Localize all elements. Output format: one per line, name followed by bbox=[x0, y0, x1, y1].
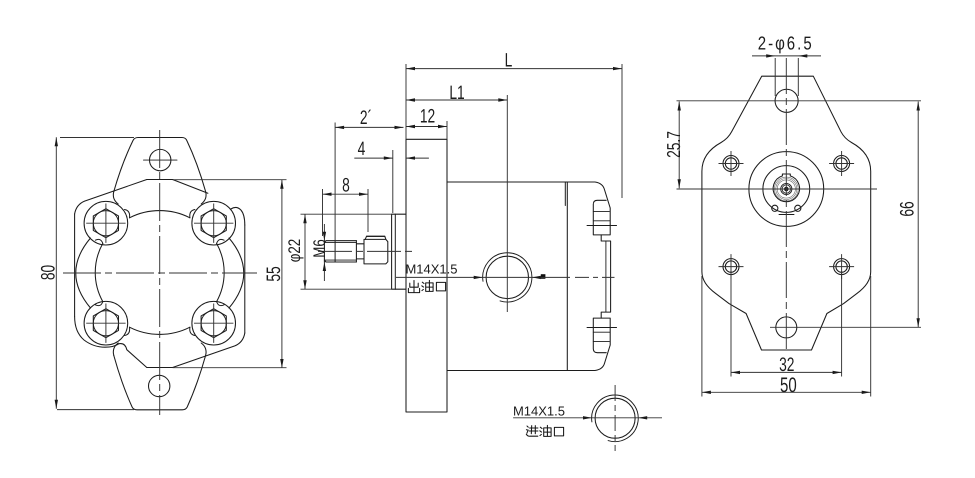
top ear right merge curve bbox=[201, 192, 206, 205]
bottom ear tab bbox=[114, 356, 206, 410]
flange right edge bbox=[244, 225, 246, 333]
svg-text:φ22: φ22 bbox=[284, 239, 303, 263]
svg-text:M14X1.5: M14X1.5 bbox=[405, 262, 457, 277]
dim phi22 line bbox=[304, 214, 306, 289]
body cap joint stub bbox=[564, 183, 566, 206]
hex bolt top-right bbox=[201, 209, 226, 238]
thread runout line bbox=[334, 241, 336, 262]
oval left-top connector bbox=[95, 239, 103, 243]
bolt hole lower-left bbox=[723, 259, 739, 275]
inlet vertical centerline bbox=[614, 385, 616, 451]
dim 80 ext top bbox=[60, 137, 134, 139]
dim 8 ext right bbox=[367, 189, 369, 232]
left view horizontal centerline bbox=[63, 272, 257, 274]
svg-text:66: 66 bbox=[897, 201, 919, 216]
dim 8 line bbox=[323, 193, 369, 195]
svg-text:M6: M6 bbox=[310, 239, 329, 258]
dim L line bbox=[406, 68, 622, 70]
dim 80 ext bottom bbox=[57, 409, 134, 411]
outlet leader and port centerline bbox=[396, 276, 570, 278]
bearing flange circle bbox=[763, 166, 810, 213]
boss crosshair TR bbox=[194, 204, 233, 243]
cap port tab top bbox=[593, 200, 606, 235]
rear view outline bbox=[702, 76, 871, 350]
cap mid strip inner line bbox=[605, 241, 607, 312]
dim 4 ext (pilot face) bbox=[392, 150, 394, 213]
outlet port bore circle bbox=[486, 256, 528, 298]
dim 55 ext bottom bbox=[173, 367, 287, 369]
boss circle top-left bbox=[84, 201, 128, 245]
inlet port bore circle bbox=[595, 398, 635, 438]
hex bolt bottom-right bbox=[201, 309, 226, 338]
dim 2prime ext left bbox=[334, 123, 336, 241]
svg-text:55: 55 bbox=[263, 266, 285, 281]
oval top-left connector bbox=[125, 210, 130, 218]
dim 2prime line bbox=[335, 126, 403, 128]
top ear hole bbox=[150, 149, 171, 170]
outlet port thread arc bbox=[483, 253, 532, 302]
dim 25.7 line bbox=[678, 102, 680, 189]
bolt hole upper-left bbox=[723, 156, 739, 172]
dim 12 ext right bbox=[446, 121, 448, 139]
dim L ext right bbox=[621, 64, 623, 198]
shaft inner circle bbox=[781, 183, 792, 194]
oval body outline top arc bbox=[130, 211, 190, 218]
flange bottom-right slope bbox=[173, 333, 245, 368]
cap tab top ridges bbox=[593, 211, 610, 220]
svg-text:M14X1.5: M14X1.5 bbox=[513, 404, 565, 419]
dim 2-phi6.5 ext lines bbox=[775, 58, 798, 96]
right view vertical centerline bbox=[785, 58, 787, 352]
top tab hole bbox=[775, 89, 798, 112]
svg-text:50: 50 bbox=[780, 374, 797, 398]
shaft thread rings bbox=[774, 177, 798, 201]
pump body top edge bbox=[447, 181, 567, 183]
boss crosshair BL bbox=[86, 304, 125, 343]
left view vertical centerline bbox=[159, 130, 161, 415]
body centerline through cap bbox=[575, 276, 615, 278]
bottom ear hole bbox=[149, 375, 170, 396]
dim phi22 ext bottom bbox=[301, 288, 392, 290]
top ear tab bbox=[114, 138, 206, 192]
flange bottom edge bbox=[147, 367, 173, 369]
dim 50 line bbox=[702, 391, 871, 393]
inlet leader line bbox=[513, 417, 662, 419]
oval body outline bottom arc bbox=[130, 327, 190, 334]
bolt hole crosshairs bbox=[719, 151, 855, 279]
hex bolt top-left bbox=[93, 209, 118, 238]
section dot on centerline bbox=[541, 274, 546, 279]
cap tab bottom tick bbox=[587, 327, 617, 329]
label chu-you-kou (oil outlet) bbox=[408, 281, 419, 293]
dim L ext left bbox=[405, 64, 407, 139]
boss crosshair BR bbox=[194, 304, 233, 343]
boss circle bottom-left bbox=[84, 301, 128, 345]
shaft circle with keyway bbox=[773, 174, 799, 202]
dim 32 line bbox=[731, 371, 842, 373]
dim 32 ext lines bbox=[731, 271, 842, 377]
boss circle bottom-right bbox=[192, 301, 236, 345]
right view horizontal centerline bbox=[677, 188, 878, 190]
pilot boss phi22 bbox=[392, 214, 406, 289]
flange top-left slope bbox=[75, 180, 147, 215]
top ear left merge curve bbox=[113, 192, 118, 205]
svg-text:8: 8 bbox=[342, 175, 350, 197]
dim 50 ext lines bbox=[702, 276, 871, 397]
flange top edge bbox=[147, 179, 173, 181]
flange left edge bbox=[74, 214, 76, 316]
boss crosshair TL bbox=[86, 204, 125, 243]
bolt hole lower-right bbox=[834, 259, 850, 275]
body cap face line bbox=[566, 182, 568, 371]
dim 4 line bbox=[354, 157, 429, 159]
oval bottom-right connector bbox=[190, 327, 195, 335]
bearing pin hole left bbox=[772, 205, 778, 211]
flange bottom-left boss wrap bbox=[75, 316, 147, 367]
bearing pin hole right bbox=[795, 205, 801, 211]
bolt hole upper-right bbox=[834, 156, 850, 172]
cap tab bottom ridges bbox=[593, 332, 610, 341]
oval left-bottom connector bbox=[95, 302, 103, 306]
shaft collar bbox=[364, 239, 388, 264]
bolt washer circle top-right bbox=[201, 211, 226, 236]
hex bolt bottom-left bbox=[93, 309, 118, 338]
svg-text:80: 80 bbox=[38, 265, 60, 280]
oval body outline right arc bbox=[217, 243, 225, 301]
key top edge bbox=[367, 235, 385, 237]
dim 12 line bbox=[406, 126, 447, 128]
dim L1 line bbox=[406, 99, 507, 101]
label jin-you-kou (oil inlet) bbox=[526, 426, 538, 437]
shaft centerline bbox=[318, 250, 416, 252]
oval body outline left arc bbox=[95, 243, 103, 301]
flange top-right S-curve to boss bbox=[231, 207, 245, 225]
dim M6 arrow lines bbox=[323, 224, 325, 281]
cap tab top tick bbox=[587, 225, 617, 227]
bottom ear right merge curve bbox=[201, 343, 206, 356]
boss circle top-right bbox=[192, 201, 236, 245]
flange top-right slope bbox=[173, 180, 208, 194]
cap port tab bottom bbox=[593, 318, 606, 353]
bottom hole horizontal line bbox=[770, 326, 921, 328]
dim 2-phi6.5 line bbox=[752, 55, 821, 57]
bottom ear left merge curve bbox=[113, 343, 118, 356]
shaft neck bbox=[356, 241, 364, 262]
svg-text:L: L bbox=[505, 50, 513, 72]
port vertical centerline bbox=[506, 95, 508, 312]
oval right-top connector bbox=[217, 239, 225, 243]
arrowheads bbox=[55, 137, 58, 146]
bottom tab hole bbox=[776, 317, 797, 338]
mounting flange plate bbox=[406, 139, 447, 412]
right waist arc between right bosses bbox=[229, 238, 244, 308]
key on shaft bbox=[365, 236, 386, 239]
svg-text:25.7: 25.7 bbox=[664, 131, 685, 158]
end cap outline bbox=[567, 182, 610, 371]
top hole horizontal line and 66 ext top bbox=[677, 100, 922, 102]
bolt washer circle bottom-right bbox=[201, 311, 226, 336]
svg-text:2-φ6.5: 2-φ6.5 bbox=[758, 33, 814, 54]
shaft thread M6 section bbox=[324, 241, 356, 262]
thread chamfer left bbox=[324, 241, 326, 262]
left waist arc between left bosses bbox=[76, 238, 91, 308]
thread minor diameter lines bbox=[325, 243, 356, 261]
svg-text:L1: L1 bbox=[449, 82, 464, 104]
pump body bottom edge bbox=[447, 370, 567, 372]
dim 55 ext top bbox=[173, 179, 287, 181]
center boss outer circle bbox=[749, 152, 824, 227]
inlet port thread arc bbox=[592, 395, 639, 442]
shaft center dot bbox=[784, 187, 789, 192]
dim 55 line bbox=[281, 180, 283, 368]
bolt washer circle top-left bbox=[93, 211, 118, 236]
svg-text:4: 4 bbox=[358, 138, 366, 160]
dim 66 line bbox=[917, 102, 919, 328]
dim phi22 ext top bbox=[301, 213, 392, 215]
oval top-right connector bbox=[190, 210, 195, 218]
oval bottom-left connector bbox=[125, 327, 130, 335]
pilot chamfer line bbox=[394, 214, 396, 289]
svg-text:12: 12 bbox=[420, 106, 435, 128]
svg-text:2´: 2´ bbox=[360, 107, 372, 129]
dim 8 ext left bbox=[322, 189, 324, 236]
bottom dash mark bbox=[779, 214, 794, 216]
oval right-bottom connector bbox=[217, 302, 225, 306]
bolt washer circle bottom-left bbox=[93, 311, 118, 336]
top ear hole centerline bbox=[144, 159, 178, 161]
dim 80 line bbox=[55, 137, 57, 408]
